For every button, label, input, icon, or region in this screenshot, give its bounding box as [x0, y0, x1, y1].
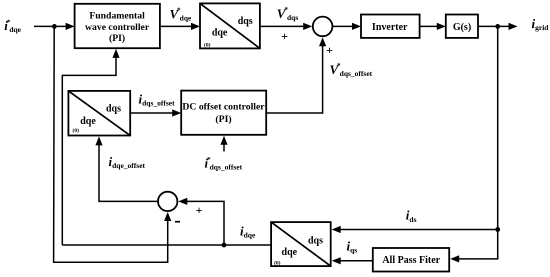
block: Inverter [361, 15, 420, 38]
svg-text:Inverter: Inverter [372, 22, 408, 33]
svg-text:dqe: dqe [212, 27, 228, 38]
block: Fundamental wave controller (PI) [75, 4, 160, 48]
svg-text:+: + [281, 29, 288, 43]
svg-text:dqe: dqe [80, 116, 96, 127]
svg-text:G(s): G(s) [453, 22, 471, 33]
transform T3: dqs to dqe (bottom) [271, 222, 331, 266]
transform T2: dqe to dqs (middle) [68, 91, 130, 136]
wire: right feedback down to All Pass Filter [450, 26, 498, 262]
svg-text:(0): (0) [274, 260, 281, 267]
svg-text:Fundamental: Fundamental [89, 11, 145, 22]
wire: reference stub i*_dqs_offset into DC controller bottom [220, 136, 227, 152]
svg-text:dqs: dqs [106, 103, 121, 114]
svg-text:DC offset controller: DC offset controller [182, 102, 265, 113]
wire: input i*_dqe into controller [34, 23, 75, 30]
wire: S2 output up into transform T2 bottom [95, 136, 158, 201]
svg-text:dqs: dqs [308, 235, 323, 246]
block: G(s) [446, 15, 478, 38]
junction dot: i_ds branch node [495, 227, 500, 232]
summing junction S2 [158, 192, 177, 211]
svg-text:(0): (0) [73, 127, 80, 134]
svg-text:+: + [196, 203, 203, 217]
junction dot: i_dqe node [222, 243, 227, 248]
svg-text:dqs: dqs [238, 16, 253, 27]
summing junction S1 [313, 17, 333, 37]
svg-text:All Pass Fiter: All Pass Fiter [382, 255, 440, 266]
wire: i_ds into transform T3 [332, 226, 498, 233]
wire: T3 output i_dqe to the left [62, 244, 271, 246]
svg-text:(PI): (PI) [109, 33, 125, 44]
wire: G(s) output to i_grid [478, 23, 518, 30]
label: minus sign at S2 bottom input [175, 221, 180, 223]
wire: DC controller output V*_dqs_offset up into S1 bottom [266, 37, 326, 113]
wire: S1 to Inverter [332, 23, 361, 30]
junction dot: grid current node [495, 24, 500, 29]
svg-text:(0): (0) [204, 42, 211, 49]
transform T1: dqe to dqs [200, 3, 260, 48]
block: All Pass Fiter [373, 248, 449, 272]
svg-text:dqe: dqe [282, 247, 298, 258]
svg-text:(PI): (PI) [215, 114, 231, 125]
wire: i_dqe branch up into summing junction S2 right [178, 198, 224, 245]
wire: outer feedback from input node down into summing junction S2 bottom [54, 26, 172, 262]
block: DC offset controller (PI) [181, 91, 266, 135]
svg-text:+: + [326, 43, 333, 57]
wire: All Pass Filter output i_qs to T3 [332, 257, 373, 264]
wire: T1 output to summing junction S1 [260, 23, 312, 30]
svg-text:wave controller: wave controller [85, 22, 150, 33]
wire: Inverter to G(s) [420, 23, 446, 30]
wire: i_dqe feedback up into controller bottom [62, 49, 119, 245]
wire: T2 output i_dqs_offset to DC offset controller [130, 109, 181, 116]
junction dot: input node [52, 24, 57, 29]
wire: controller output to transform T1 [160, 23, 200, 30]
